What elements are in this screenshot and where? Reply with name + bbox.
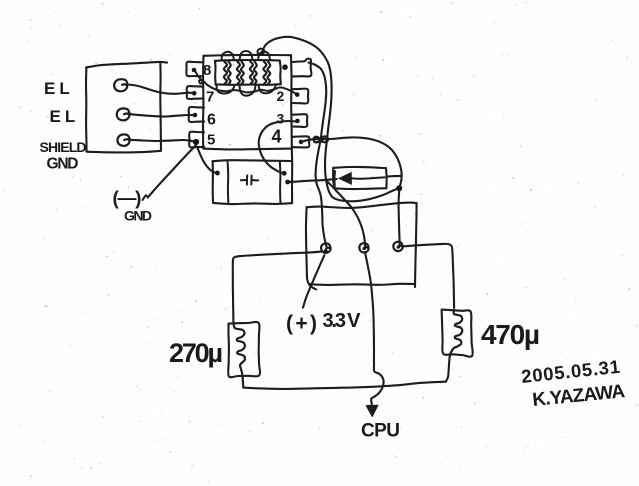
pin 2 [293, 89, 309, 104]
junction knot A [314, 137, 320, 143]
diode D1 body box [333, 167, 387, 189]
pin label 6 [207, 112, 216, 129]
svg-text:EL: EL [50, 107, 80, 126]
wire SHIELD to pin5 [131, 140, 195, 142]
pin label 3 [277, 111, 285, 127]
wire pin4 envelope to diode-right node [304, 137, 402, 187]
node dot C1 right terminal upper [282, 171, 287, 176]
transformer T1 zigzag windings [224, 62, 270, 84]
module M1 box [306, 203, 417, 290]
inductor L1 270u box [228, 322, 260, 377]
transformer T1 core box [215, 60, 281, 85]
pin 6 [189, 107, 205, 122]
connector J1 box [86, 62, 167, 153]
label EL (bottom) [50, 107, 80, 126]
node dot C1 left terminal [215, 171, 220, 176]
connector pin circle SHIELD [117, 134, 129, 145]
pin 8 [186, 62, 202, 77]
diode D1 cathode bar [333, 171, 336, 186]
junction knot B [322, 136, 328, 142]
wire module left terminal to (+)3.3V [303, 255, 324, 307]
connector pin circle EL2 [117, 108, 130, 120]
pin label 5 [207, 132, 215, 149]
node dot C1 right terminal lower [285, 180, 290, 185]
inductor L2 coil [450, 310, 462, 356]
svg-text:CPU: CPU [361, 421, 400, 442]
wire L2 bottom link [446, 356, 450, 381]
label signature K.YAZAWA [531, 381, 626, 411]
svg-text:6: 6 [207, 112, 216, 129]
label 270u [169, 338, 223, 368]
transformer T1 bottom loops [217, 85, 276, 96]
svg-text:2: 2 [277, 88, 285, 104]
pin label 2 [277, 88, 285, 104]
svg-text:7: 7 [206, 89, 214, 106]
label (+) 3.3V [286, 310, 361, 335]
pin 1 [293, 59, 312, 77]
transformer top knot loop [257, 49, 264, 55]
svg-text:EL: EL [44, 79, 74, 98]
wire U1 corner to C1 left terminal [197, 148, 215, 173]
label (-) GND [113, 189, 153, 224]
capacitor C1 body box [213, 149, 293, 204]
module terminal left [321, 243, 330, 253]
svg-text:GND: GND [124, 207, 152, 223]
inductor L1 coil [234, 324, 245, 387]
wire D1 right lead [387, 175, 402, 178]
IC U1 body [203, 55, 292, 150]
label CPU [361, 421, 400, 442]
pin 7 [187, 86, 204, 99]
wire module right terminal to L2 top [403, 244, 454, 308]
pin label 8 [203, 62, 211, 79]
label SHIELD GND [40, 139, 87, 173]
label date 2005.05.31 [520, 356, 621, 387]
diode D1 arrow [339, 173, 385, 185]
wire pin3 to C1 right terminal [259, 121, 296, 173]
node dot T1 secondary top [282, 64, 288, 70]
svg-text:270µ: 270µ [169, 338, 223, 368]
transformer T1 top humps [222, 51, 271, 61]
CPU arrowhead [366, 405, 378, 416]
label EL (top) [44, 79, 74, 98]
svg-text:3.3 V: 3.3 V [323, 310, 362, 332]
pin 4 [292, 136, 309, 147]
svg-text:GND: GND [47, 156, 79, 173]
wire C1 to D1 [290, 179, 337, 182]
svg-text:4: 4 [272, 127, 282, 147]
wire inner arc pin1 to module left terminal [309, 63, 327, 248]
node dot right of diode [396, 185, 402, 191]
label 470u [481, 319, 540, 350]
module terminal right [393, 242, 402, 251]
wire EL2 to pin6 [130, 114, 193, 116]
pin 5 [189, 132, 204, 148]
svg-text:8: 8 [203, 62, 211, 79]
pin label 4 [272, 127, 282, 147]
wire module left terminal to L1 top [233, 252, 322, 323]
wire bus to module middle terminal [328, 182, 365, 246]
wire EL1 to pin7 [128, 85, 193, 94]
module terminal middle [359, 243, 368, 252]
wire pin5 to (-) GND [149, 145, 196, 196]
wire module middle terminal to CPU with hop [365, 252, 384, 408]
wire outer arc transformer-top to diode bus [262, 37, 398, 201]
wire bottom bus L1 to L2 [243, 382, 446, 389]
capacitor C1 symbol [241, 175, 258, 184]
svg-text:SHIELD: SHIELD [40, 139, 87, 155]
svg-text:3: 3 [277, 111, 285, 127]
svg-text:470µ: 470µ [481, 319, 540, 350]
connector pin circle EL1 [114, 79, 127, 91]
pin 3 [292, 114, 307, 127]
transformer T1 winding wire pin8 to pin2 [195, 71, 297, 95]
svg-text:(+): (+) [286, 312, 317, 335]
wire node to module right terminal [399, 191, 400, 245]
pin label 7 [206, 89, 214, 106]
inductor L2 470u box [442, 310, 473, 357]
svg-text:5: 5 [207, 132, 215, 149]
